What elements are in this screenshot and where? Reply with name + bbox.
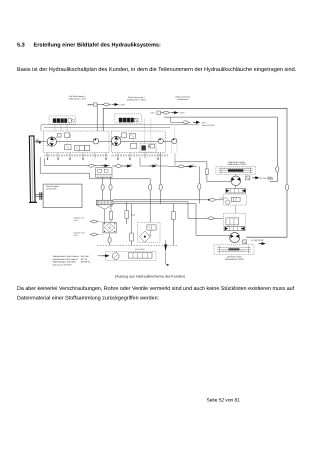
svg-text:8.Teil XXX: 8.Teil XXX	[220, 196, 229, 199]
label: right drive pump	[127, 96, 147, 102]
wire: main frame outer box	[103, 108, 287, 237]
wire: drop from hatch to run c	[174, 153, 176, 166]
hose H10 tank line	[90, 233, 103, 236]
solenoid sub-block dashed (pump2)	[140, 143, 156, 152]
hose H3	[177, 165, 186, 168]
cutter bar (mower attachment)	[28, 136, 37, 203]
svg-text:XXX =: XXX =	[87, 104, 94, 107]
hose arrow A4	[187, 164, 196, 168]
port hatch row group2	[112, 154, 167, 156]
hose arrow A7 run C	[193, 121, 215, 127]
svg-text:Erstellung einer Bildtafel des: Erstellung einer Bildtafel des Hydraulik…	[34, 42, 161, 49]
svg-text:Teilenummer 1 XXX: Teilenummer 1 XXX	[68, 97, 86, 100]
svg-text:und usw. in XXXXXX: und usw. in XXXXXX	[53, 263, 73, 266]
label tank hose	[74, 232, 86, 237]
port drops group1	[48, 153, 107, 159]
hose H2	[114, 165, 123, 168]
valve v1d dual cell	[75, 145, 85, 150]
svg-text:Left drive motor: Left drive motor	[227, 255, 242, 258]
label radiator hose	[74, 217, 85, 222]
filter unit box (dashed)	[138, 222, 161, 242]
wire: riser top-left hose run A	[88, 105, 103, 132]
hose run segment b	[140, 158, 168, 167]
wire: drops to bottom valve assembly	[127, 202, 174, 246]
gauge G1	[112, 253, 119, 260]
svg-text:Teilenummern Tank, interner: Teilenummern Tank, interner	[53, 255, 79, 258]
valve v2b	[129, 133, 135, 138]
svg-text:9. Teil XXXX: 9. Teil XXXX	[251, 239, 264, 242]
svg-text:XXXX: XXXX	[74, 234, 80, 237]
svg-text:Speed XXXXX: Speed XXXXX	[202, 124, 216, 127]
valve bank M1	[226, 186, 246, 193]
svg-text:165/38-43: 165/38-43	[81, 261, 91, 264]
svg-text:Teilenummer 1 XXXX: Teilenummer 1 XXXX	[127, 99, 147, 102]
valve v1e	[85, 145, 90, 150]
axle box M2 (dashed)	[214, 245, 254, 255]
svg-text:Zweifachventil: Zweifachventil	[177, 98, 189, 101]
brake assembly box M1 (dashed)	[216, 166, 255, 174]
hose run under pump group 2 segment a	[112, 165, 132, 167]
svg-text:Teilenummer XXXX: Teilenummer XXXX	[225, 258, 245, 261]
label: left wheel pump	[68, 95, 86, 101]
svg-text:XXX XXXX: XXX XXXX	[135, 248, 146, 251]
svg-text:167-46: 167-46	[81, 258, 88, 261]
wire: flush link between motors	[234, 205, 236, 213]
port hatch row group1	[45, 154, 107, 156]
hose arrow A3	[150, 163, 159, 167]
pump P1 (left wheel drive pump, variable)	[47, 137, 57, 147]
wire: feed line into right motor	[175, 162, 231, 182]
svg-text:= XXX: = XXX	[119, 104, 126, 107]
hose H4 run A	[102, 103, 111, 106]
svg-text:2 bar: 2 bar	[131, 214, 136, 217]
svg-text:Stahlleitungen, Drosselkl.: Stahlleitungen, Drosselkl.	[53, 261, 77, 264]
wire: internal risers pump box 2	[124, 138, 157, 153]
svg-text:XXX =: XXX =	[150, 112, 157, 115]
wire: dashed risers pump2 area	[145, 118, 151, 143]
tank unit box (dashed)	[106, 252, 156, 261]
svg-text:Datenmaterial einer Stoffsamml: Datenmaterial einer Stoffsammlung zurück…	[17, 295, 159, 301]
feed arrow tank unit	[98, 255, 109, 257]
valve bank M2	[225, 226, 245, 230]
hose run segment c	[168, 165, 197, 167]
svg-text:Seite 52 von 81: Seite 52 von 81	[207, 398, 241, 404]
restrictor R2	[130, 233, 134, 241]
diesel engine box	[43, 184, 82, 208]
shaft: bar to pump drive	[35, 139, 44, 143]
bypass valve F1	[147, 225, 156, 236]
charge pump 2	[158, 138, 163, 143]
wire: bus main pump line	[44, 140, 172, 142]
breather wedge	[164, 240, 169, 266]
hose arrow A2	[124, 163, 132, 167]
svg-text:5.3: 5.3	[17, 43, 25, 49]
oil cooler manifold block	[96, 200, 113, 222]
wire: drains to manifold	[113, 153, 230, 235]
svg-text:Da aber keinerlei Verschraubun: Da aber keinerlei Verschraubungen, Rohre…	[17, 286, 295, 292]
hose arrow A8 with part no	[252, 177, 273, 180]
wire: valve V1 risers	[55, 124, 67, 131]
hose run under pump group 1	[45, 159, 111, 166]
label: right drive motor	[227, 161, 247, 166]
valve v1b with spring	[65, 133, 71, 138]
wire: tank return dashed line	[97, 244, 178, 246]
hose H7	[208, 196, 229, 201]
hose V3	[149, 184, 152, 190]
relief valve 2bar	[125, 211, 136, 219]
cooler box	[96, 168, 113, 185]
solenoid cluster dark V2	[119, 118, 138, 123]
restrictor R3	[171, 212, 175, 220]
port drain arrows group2	[117, 158, 159, 160]
valve v1a	[58, 133, 62, 137]
wire: drain elbow left	[40, 157, 150, 222]
hose V2	[109, 184, 112, 190]
sensor box M1	[246, 176, 250, 180]
charge pump 3	[172, 138, 177, 143]
flush block M1 (dashed)	[224, 194, 247, 205]
wire: internal risers pump box 1	[59, 137, 87, 152]
hose H-right-frame vertical	[276, 166, 279, 172]
hose H9 radiator line	[90, 220, 103, 223]
wire: run C stub	[171, 117, 183, 122]
valve v2c	[131, 143, 137, 148]
label: working hydraulics	[175, 96, 190, 101]
solenoid cluster dark V1	[53, 118, 75, 122]
svg-text:10. Teil XXXX: 10. Teil XXXX	[259, 177, 273, 180]
svg-text:Basis ist der Hydraulikschaltp: Basis ist der Hydraulikschaltplan des Ku…	[17, 66, 297, 73]
svg-text:(Auszug aus Hydraulikschema de: (Auszug aus Hydraulikschema des Kunden)	[115, 275, 185, 279]
hose V-outer-frame	[285, 184, 288, 190]
gauge bank	[128, 248, 152, 258]
svg-text:XX: XX	[192, 164, 195, 167]
motor M1 (right drive)	[231, 175, 241, 186]
label: left drive motor	[225, 255, 245, 261]
hose H6 run C	[181, 121, 190, 124]
hose H5 run B	[162, 111, 171, 114]
shaft coupling: bar to diesel engine	[35, 192, 44, 200]
svg-text:= XXX: = XXX	[178, 112, 185, 115]
svg-text:XXX =: XXX =	[202, 121, 209, 124]
valve v2a	[122, 133, 127, 137]
svg-text:XXXX: XXXX	[74, 219, 80, 222]
wire: manifold to right motor flush	[103, 191, 224, 201]
hose arrow A1	[102, 165, 108, 167]
wire: manifold to left motor line	[111, 191, 224, 219]
hose arrow A6 run B	[171, 112, 185, 115]
wire: inner frame box right	[164, 117, 277, 182]
fitting tag run B	[150, 111, 163, 115]
solenoid valve block V1 (dashed)	[49, 116, 75, 124]
svg-text:Teilenummer XXXX: Teilenummer XXXX	[227, 163, 247, 166]
hose V7 bridge to tank	[108, 233, 111, 246]
wire: dashed risers charge pumps	[172, 127, 177, 153]
svg-text:Right drive pump 1: Right drive pump 1	[128, 96, 146, 99]
solenoid valve block V2 (dashed)	[115, 114, 141, 123]
port drain arrows group1	[47, 158, 107, 160]
charge pump 1	[93, 138, 99, 144]
port drops group2	[118, 153, 158, 159]
filter F1	[139, 231, 150, 242]
sensor box M2	[243, 240, 247, 244]
restrictor R1	[206, 169, 209, 175]
pump group 1 enclosure (dashed)	[44, 131, 110, 153]
svg-text:Drehzahlen: Drehzahlen	[46, 188, 56, 191]
wire: supply bus pair	[41, 125, 199, 131]
flush block M2 (dashed)	[223, 213, 245, 231]
hose V5	[198, 183, 201, 189]
svg-text:XX: XX	[155, 163, 158, 166]
hose H8	[207, 217, 216, 220]
svg-text:140: Mat: 140: Mat	[81, 255, 90, 258]
valve v1c	[65, 145, 71, 150]
part tag M2	[251, 239, 264, 245]
motor M2 (left drive)	[230, 233, 240, 243]
valve v2e	[149, 145, 155, 148]
restrictor R4 bridge feed	[110, 205, 113, 223]
parts list text block	[53, 255, 91, 266]
valve v2d dark	[141, 145, 145, 150]
check valve bridge	[103, 222, 116, 233]
hose arrow A5 run A	[112, 103, 126, 106]
hose V1	[101, 184, 104, 190]
node label text right frame	[268, 176, 275, 181]
fitting tag run A	[87, 103, 97, 107]
svg-text:hydraulischer Filter reducer: hydraulischer Filter reducer	[53, 258, 78, 261]
svg-text:XX: XX	[130, 163, 133, 166]
pump group 2 enclosure (dashed)	[111, 131, 165, 153]
hose H1	[87, 164, 96, 167]
hose V4	[159, 184, 162, 190]
pump P2 (right drive pump, variable)	[111, 136, 121, 146]
